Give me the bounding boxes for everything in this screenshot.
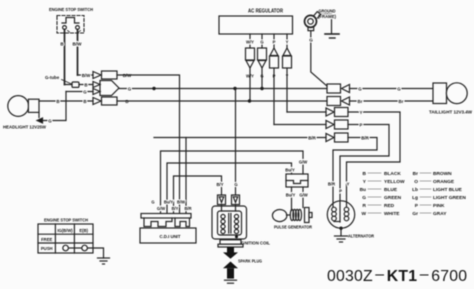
svg-text:Gr: Gr — [412, 211, 418, 217]
svg-text:B: B — [56, 99, 59, 104]
svg-text:P: P — [415, 203, 419, 209]
2-into-1 bullet connector — [93, 81, 119, 96]
svg-text:ENGINE STOP SWITCH: ENGINE STOP SWITCH — [44, 218, 88, 224]
svg-text:HEADLIGHT 12V25W: HEADLIGHT 12V25W — [3, 125, 46, 131]
svg-text:B/R: B/R — [308, 136, 316, 141]
svg-text:GROUND: GROUND — [319, 8, 337, 13]
svg-text:B/W: B/W — [177, 200, 185, 205]
wire B/R row — [154, 137, 326, 139]
svg-text:PUSH: PUSH — [41, 246, 53, 251]
wire B into 2-1 connector — [65, 84, 94, 86]
ignition coil connector G — [232, 195, 240, 205]
svg-text:P: P — [339, 189, 342, 194]
svg-text:GREEN: GREEN — [384, 195, 402, 201]
node: ignition coil G tap — [233, 87, 236, 90]
svg-text:LIGHT BLUE: LIGHT BLUE — [433, 187, 463, 193]
svg-text:G/W: G/W — [157, 206, 165, 211]
svg-text:B/Y: B/Y — [172, 206, 179, 211]
svg-text:SPARK PLUG: SPARK PLUG — [238, 259, 262, 264]
wire Bu/Y below connector — [291, 187, 293, 211]
svg-text:W/Y: W/Y — [246, 40, 254, 45]
svg-text:YELLOW: YELLOW — [384, 179, 405, 185]
wire W/Y down to bus — [249, 68, 251, 101]
svg-text:B/W: B/W — [73, 42, 83, 47]
wire P loop to alternator — [340, 125, 389, 223]
svg-text:G/W: G/W — [299, 160, 307, 165]
svg-text:B: B — [84, 83, 87, 88]
svg-text:G: G — [151, 200, 154, 205]
svg-text:BLUE: BLUE — [384, 187, 398, 193]
svg-text:Y: Y — [360, 110, 363, 115]
node: alternator ground — [339, 227, 342, 230]
svg-text:G: G — [358, 87, 362, 92]
svg-text:G: G — [397, 87, 401, 92]
connector G male bullet — [342, 85, 350, 93]
svg-text:G-tube: G-tube — [45, 75, 60, 80]
ring terminal — [305, 12, 321, 31]
spark plug cap — [218, 240, 243, 247]
svg-text:G: G — [48, 119, 52, 124]
svg-text:G: G — [83, 90, 87, 95]
connector P female — [335, 120, 349, 129]
svg-text:Lg: Lg — [412, 195, 418, 201]
svg-text:G: G — [260, 40, 263, 45]
wire Y down then to Y row — [286, 68, 288, 112]
svg-text:TAILLIGHT 12V3.4W: TAILLIGHT 12V3.4W — [429, 110, 473, 115]
taillight — [433, 83, 467, 104]
alternator ALT1 — [327, 201, 354, 228]
wire G from ring terminal — [311, 31, 327, 86]
svg-text:PULSE GENERATOR: PULSE GENERATOR — [274, 225, 313, 230]
wire B from stop switch — [64, 29, 66, 84]
svg-text:B/W: B/W — [82, 73, 91, 78]
svg-text:O: O — [414, 179, 418, 185]
wire Y from regulator — [286, 34, 288, 48]
connector G female (right stack) — [327, 84, 341, 93]
svg-text:ENGINE STOP SWITCH: ENGINE STOP SWITCH — [49, 7, 93, 13]
wire P row — [274, 124, 326, 126]
svg-text:GRAY: GRAY — [433, 211, 447, 217]
svg-text:G: G — [234, 182, 237, 187]
G-tube sleeve on wire — [72, 82, 79, 87]
headlight — [8, 96, 39, 118]
node: regulator W/Y tap — [248, 99, 251, 102]
svg-text:R: R — [363, 203, 367, 209]
connector pair B/W (male bullet) — [93, 72, 101, 79]
svg-text:G: G — [309, 38, 313, 43]
wire P down then to P row — [273, 68, 275, 125]
wire G into 2-1 connector — [66, 91, 93, 93]
connector Br female (right stack) — [327, 97, 341, 106]
wire B from headlight — [39, 100, 93, 102]
connector P male bullet — [270, 48, 278, 56]
node: CDI G tap — [152, 87, 155, 90]
wire P from regulator — [273, 34, 275, 48]
spark plug ground — [225, 280, 237, 283]
wire Br to taillight — [350, 100, 434, 102]
connector B/R male bullet (right stack) — [326, 134, 334, 142]
connector Y female — [335, 108, 349, 117]
svg-text:LIGHT GREEN: LIGHT GREEN — [433, 195, 466, 201]
connector P female — [270, 56, 279, 68]
connector P male bullet (right stack) — [326, 121, 334, 129]
ignition coil connector B/Y — [218, 195, 226, 205]
svg-text:Bu/Y: Bu/Y — [164, 200, 174, 205]
svg-text:Br: Br — [399, 99, 404, 104]
svg-text:IG(B/W): IG(B/W) — [57, 228, 73, 233]
spark plug gap arrows — [223, 247, 238, 279]
svg-text:B: B — [83, 99, 86, 104]
wire Y row — [287, 111, 326, 113]
wire to alternator ground — [340, 228, 342, 236]
svg-text:B: B — [363, 171, 367, 177]
pulse generator PG1 — [272, 208, 312, 223]
svg-text:ALTERNATOR: ALTERNATOR — [348, 234, 374, 240]
svg-text:RED: RED — [384, 203, 395, 209]
svg-text:ORANGE: ORANGE — [433, 179, 455, 185]
connector B/R female — [335, 133, 349, 142]
svg-text:B/Y: B/Y — [217, 182, 224, 187]
wire G down to headlight — [43, 92, 66, 121]
wire Y loop to alternator — [347, 112, 401, 207]
svg-text:G/W: G/W — [299, 193, 307, 198]
svg-text:BROWN: BROWN — [433, 171, 452, 177]
connector Y male bullet — [283, 48, 291, 56]
svg-text:Bu/Y: Bu/Y — [286, 193, 296, 198]
wire B/W row to connector — [78, 74, 94, 76]
wire Bu/Y from CDI to pulse generator — [167, 163, 292, 213]
ground symbol (stop switch) — [98, 258, 110, 264]
svg-text:WHITE: WHITE — [384, 211, 400, 217]
connector W/Y female — [246, 48, 255, 60]
svg-text:B/R: B/R — [184, 206, 191, 211]
svg-text:Br: Br — [413, 171, 418, 177]
CDI unit box — [140, 228, 196, 243]
svg-text:BLACK: BLACK — [384, 171, 401, 177]
wire W/Y from regulator — [249, 34, 251, 48]
svg-text:PINK: PINK — [433, 203, 445, 209]
svg-text:W: W — [361, 211, 366, 217]
connector Br male bullet — [342, 97, 350, 105]
svg-text:G: G — [128, 87, 132, 92]
svg-text:0030Z–KT1–6700: 0030Z–KT1–6700 — [327, 266, 467, 285]
svg-text:P: P — [360, 123, 363, 128]
B / Br bus wire to taillight connector — [117, 100, 327, 102]
wire B/R loop to alternator — [333, 138, 377, 208]
pulse generator connector — [286, 174, 308, 187]
ground symbol (alternator) — [335, 236, 348, 242]
connector W/Y male bullet — [246, 61, 254, 69]
svg-text:Br: Br — [358, 99, 363, 104]
svg-text:C.D.I UNIT: C.D.I UNIT — [160, 234, 181, 239]
ground (frame) — [319, 14, 332, 34]
node: AC regulator G tap — [260, 87, 263, 90]
CDI unit connector — [141, 200, 192, 227]
svg-text:E(B): E(B) — [79, 228, 88, 233]
wire G/W below connector — [302, 187, 304, 208]
svg-text:Y: Y — [363, 179, 367, 185]
connector G female — [258, 48, 267, 60]
connector B (male bullet) — [93, 98, 101, 105]
svg-text:B/R: B/R — [361, 136, 369, 141]
connector pair B/W (female) — [102, 71, 118, 79]
svg-text:AC REGULATOR: AC REGULATOR — [248, 9, 283, 15]
G bus wire — [119, 88, 327, 90]
wire B/Y from CDI to ignition coil — [174, 176, 222, 213]
svg-text:Bu: Bu — [360, 187, 366, 193]
headlight wire terminal — [37, 118, 43, 123]
connector G male bullet — [258, 61, 266, 69]
svg-text:Y: Y — [347, 182, 350, 187]
svg-text:Y: Y — [286, 40, 289, 45]
wire G/W from CDI to pulse generator — [161, 151, 304, 213]
ground symbol (frame) — [325, 34, 339, 38]
svg-text:IGNITION COIL: IGNITION COIL — [240, 241, 270, 246]
connector Y male bullet (right stack) — [326, 108, 334, 116]
wire B/R drop to CDI — [185, 138, 187, 214]
svg-text:FREE: FREE — [41, 237, 52, 242]
svg-text:Bu/Y: Bu/Y — [285, 168, 295, 173]
wire B/W to CDI — [117, 75, 180, 213]
wire G down to G bus — [261, 68, 263, 89]
connector Y female — [283, 56, 292, 68]
svg-text:P: P — [273, 40, 276, 45]
wire colour legend — [368, 173, 431, 213]
wire G to taillight — [350, 88, 434, 90]
wire G to ignition coil — [235, 89, 237, 196]
svg-text:Lb: Lb — [412, 187, 418, 193]
svg-text:B/R: B/R — [328, 182, 335, 187]
wire G from regulator — [261, 34, 263, 48]
connector B (female) — [102, 97, 118, 105]
wire B/W from stop switch — [77, 29, 79, 75]
ignition coil T1 — [212, 205, 247, 240]
svg-text:G: G — [362, 195, 366, 201]
